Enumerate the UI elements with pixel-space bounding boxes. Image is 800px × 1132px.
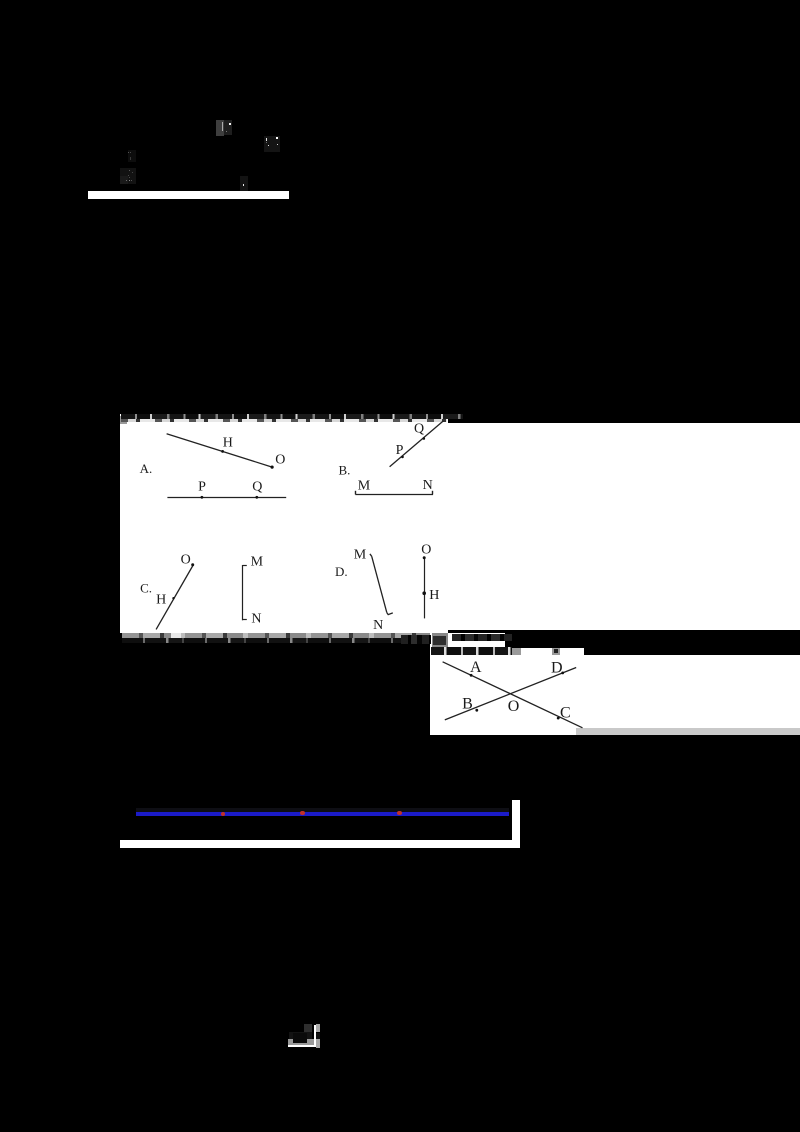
- svg-text:M: M: [251, 554, 264, 569]
- bracket MN: [242, 565, 244, 620]
- point P on A2: [201, 496, 204, 499]
- page-number mark: white horizontal stroke: [288, 1045, 316, 1047]
- page-number mark: white vertical stroke: [314, 1025, 316, 1047]
- page-number mark: dark gray block: [304, 1024, 312, 1032]
- svg-text:A.: A.: [140, 461, 153, 476]
- svg-text:O: O: [181, 553, 191, 568]
- svg-text:D.: D.: [335, 564, 348, 579]
- endpoint O on A1: [271, 466, 274, 469]
- point C: [557, 717, 560, 720]
- X-panel caption dark text row 2: [431, 647, 512, 655]
- white bar top: [88, 191, 289, 199]
- svg-text:M: M: [358, 479, 371, 494]
- options panel white right band: [446, 423, 800, 630]
- point D: [561, 672, 564, 675]
- number line blue line: [136, 812, 509, 816]
- red point 3: [397, 811, 401, 815]
- point H on A1: [221, 450, 224, 453]
- svg-text:C: C: [560, 705, 571, 722]
- svg-text:O: O: [275, 452, 285, 467]
- X-figure gray bottom bar: [576, 728, 800, 736]
- red point 1: [221, 812, 225, 816]
- svg-text:A: A: [470, 659, 482, 676]
- endpoint O on D2: [423, 556, 426, 559]
- page-number mark: text blob: [289, 1032, 312, 1043]
- garbled strip (bottom of panel) dark text row: [122, 638, 452, 644]
- svg-text:O: O: [421, 543, 431, 558]
- glyph block 1 (faint scan mark): [216, 120, 224, 136]
- page-number mark: light gray right lower: [316, 1039, 320, 1048]
- point P on B1: [401, 456, 404, 459]
- white border horizontal bar: [120, 840, 520, 848]
- svg-text:N: N: [251, 612, 261, 627]
- garbled strip (bottom of panel) upper gray row: [122, 633, 452, 638]
- svg-text:D: D: [551, 660, 563, 677]
- endpoint O on C: [191, 563, 194, 566]
- point A: [470, 674, 473, 677]
- svg-text:H: H: [429, 588, 439, 603]
- number line dark upper band: [136, 808, 509, 812]
- X-figure panel: right white band: [584, 655, 800, 728]
- svg-text:Q: Q: [414, 422, 424, 437]
- point B: [475, 709, 478, 712]
- glyph block 2 (faint scan mark): [264, 136, 280, 153]
- svg-text:P: P: [198, 480, 206, 495]
- svg-text:M: M: [354, 548, 367, 563]
- gray notch 2: [552, 648, 560, 655]
- page-number mark: gray under-row: [288, 1039, 314, 1045]
- options panel white left part: [120, 414, 448, 633]
- X line A-C: [443, 662, 583, 728]
- glyph block 5 (faint scan mark): [240, 176, 249, 191]
- svg-text:C.: C.: [140, 580, 152, 595]
- glyph block 4 (faint scan mark): [120, 168, 136, 184]
- figure C segment H-O: [156, 565, 193, 629]
- glyph block 3 (faint scan mark): [128, 150, 136, 161]
- svg-text:H: H: [223, 435, 233, 450]
- svg-text:B.: B.: [339, 463, 351, 478]
- gray corner block: [120, 416, 127, 424]
- svg-text:O: O: [508, 698, 520, 715]
- dark text continuation on black: [452, 634, 512, 642]
- X line B-D: [445, 668, 576, 720]
- svg-text:N: N: [423, 478, 433, 493]
- svg-text:H: H: [156, 592, 166, 607]
- point Q on B1: [423, 437, 426, 440]
- point Q on A2: [255, 496, 258, 499]
- figure B segment P-Q: [390, 421, 444, 467]
- svg-text:B: B: [462, 696, 473, 713]
- white gap in bottom strip: [171, 633, 181, 638]
- figure D segment O-H: [424, 557, 426, 618]
- gray notch 1: [512, 648, 521, 655]
- page-number mark: light gray right upper: [316, 1024, 320, 1032]
- point H on C: [172, 597, 174, 599]
- figure D segment M-N with hooks: [372, 556, 387, 612]
- svg-text:Q: Q: [252, 480, 262, 495]
- figure A segment H-O: [167, 434, 273, 467]
- figure B segment M-N with ticks: [355, 494, 433, 496]
- figure A line P-Q: [167, 497, 286, 499]
- X-panel gray caption block: [432, 633, 449, 648]
- point H on D2: [422, 591, 426, 595]
- garbled caption strip (top of panel): [121, 414, 463, 420]
- svg-text:N: N: [373, 618, 383, 633]
- faint caption text on black (left of X panel): [401, 635, 431, 645]
- red point 2: [300, 811, 304, 815]
- X-figure panel: left white rect: [430, 633, 505, 735]
- white border vertical bar: [512, 800, 520, 848]
- svg-text:P: P: [396, 443, 404, 458]
